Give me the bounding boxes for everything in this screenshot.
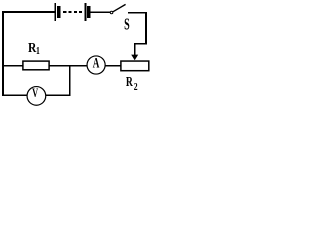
svg-text:R: R bbox=[126, 73, 133, 89]
svg-text:1: 1 bbox=[36, 46, 40, 58]
svg-text:2: 2 bbox=[134, 82, 138, 94]
svg-text:A: A bbox=[93, 54, 100, 71]
svg-text:V: V bbox=[32, 86, 38, 100]
svg-text:S: S bbox=[124, 15, 130, 33]
